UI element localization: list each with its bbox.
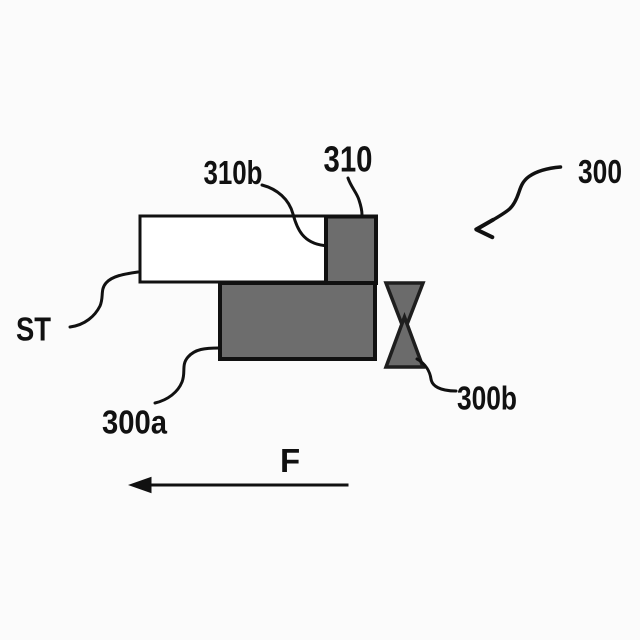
svg-text:300: 300: [578, 153, 622, 190]
leader from 310b to block 310: [262, 185, 324, 246]
arrow F head (filled): [128, 477, 152, 493]
svg-text:310: 310: [324, 139, 373, 180]
bowtie 300b (hourglass, lower triangle): [386, 317, 423, 367]
svg-text:300b: 300b: [457, 380, 517, 417]
leader from ST to white rectangle: [70, 272, 138, 327]
arrow F shaft: [148, 484, 349, 487]
svg-text:310b: 310b: [204, 154, 263, 191]
svg-text:F: F: [280, 442, 300, 479]
leader from 310 to block 310: [348, 178, 362, 215]
bowtie 300b (hourglass, upper triangle): [386, 283, 423, 331]
block 310 (small dark rectangle): [326, 217, 376, 284]
curved arrow from 300 toward assembly: [477, 167, 561, 230]
block 300a (large gray rectangle): [220, 283, 375, 359]
svg-text:300a: 300a: [102, 404, 168, 441]
leader from 300b to bowtie: [417, 359, 456, 391]
member ST (white rectangle): [140, 216, 326, 282]
leader from 300a to block 300a: [155, 348, 219, 403]
svg-text:ST: ST: [16, 311, 51, 348]
open arrowhead of 300 arrow: [476, 220, 493, 237]
